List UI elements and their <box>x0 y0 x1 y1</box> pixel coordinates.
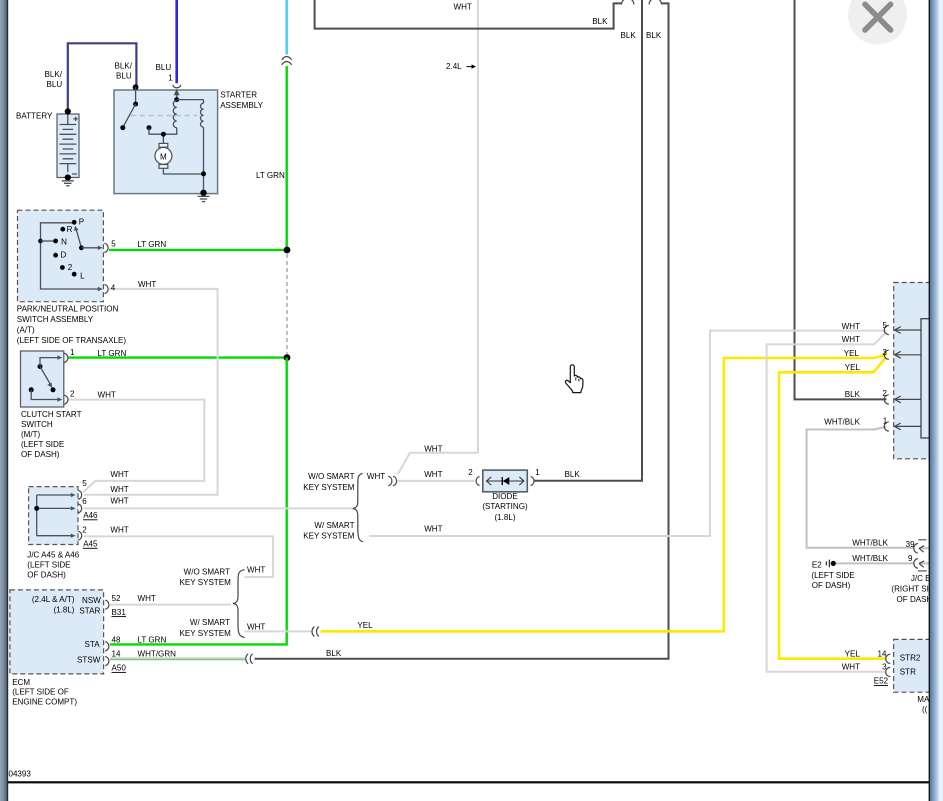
svg-text:2: 2 <box>68 263 73 272</box>
wire BLK STSW to top grommet <box>255 0 669 659</box>
connector (( WHT/GRN to BLK <box>246 654 253 664</box>
svg-text:(LEFT SIDE: (LEFT SIDE <box>811 571 855 580</box>
J/C A45 A46 box <box>29 487 78 545</box>
label J/C E1 name <box>891 574 940 604</box>
svg-text:N: N <box>61 238 67 247</box>
label 2.4L arrow <box>446 62 476 71</box>
svg-text:P: P <box>79 217 84 226</box>
PNP pin arcs <box>104 243 108 293</box>
svg-text:2: 2 <box>468 468 473 477</box>
label ECM name <box>12 678 77 706</box>
label WHT lower brace bottom <box>247 622 265 631</box>
label LT GRN vertical <box>256 171 285 180</box>
svg-text:BLK: BLK <box>326 649 342 658</box>
svg-text:NSW: NSW <box>82 596 101 605</box>
starter motor feed wires <box>149 128 177 144</box>
label DIODE name <box>482 492 528 522</box>
svg-text:WHT: WHT <box>138 594 156 603</box>
label MAIN cut <box>917 695 937 714</box>
wire WHT top vertical to diode branch <box>398 0 478 474</box>
svg-text:3: 3 <box>882 663 887 672</box>
label WHT lower brace top <box>247 565 265 574</box>
svg-text:LT GRN: LT GRN <box>138 635 167 644</box>
wire BLK starter relay to top grommet <box>315 0 634 29</box>
svg-text:W/O SMART: W/O SMART <box>308 472 354 481</box>
label STA <box>85 640 101 649</box>
svg-text:WHT/BLK: WHT/BLK <box>852 539 888 548</box>
svg-text:WHT: WHT <box>110 497 128 506</box>
wire WHT/GRN ECM STSW <box>110 658 245 660</box>
wire WHT/BLK E2 ground to J/C E1 <box>836 562 914 564</box>
ground E2 symbol <box>826 560 836 568</box>
label BLK stsw <box>326 649 342 658</box>
label BLK/BLU starter <box>115 61 133 80</box>
label right pin 1 WHT/BLK <box>824 417 887 427</box>
starter solenoid pin 1 connector <box>173 85 204 103</box>
label WHT/BLK 39 <box>852 539 915 549</box>
right connector inner component <box>895 319 941 438</box>
svg-text:WHT: WHT <box>424 445 442 454</box>
mechanical link dashed <box>131 115 197 117</box>
J/C E1 connector 9 <box>914 559 929 571</box>
STR2 connector box <box>894 639 943 692</box>
label BLK diode <box>565 470 581 479</box>
ground starter <box>198 196 210 201</box>
svg-text:WHT/BLK: WHT/BLK <box>824 417 860 426</box>
wire WHT J/C pin 2 down to W/O brace <box>84 536 273 577</box>
label W smart key lower <box>180 618 232 638</box>
svg-text:W/ SMART: W/ SMART <box>314 521 354 530</box>
svg-text:6: 6 <box>82 497 87 506</box>
svg-text:KEY SYSTEM: KEY SYSTEM <box>303 532 355 541</box>
svg-text:WHT: WHT <box>842 322 860 331</box>
label pin 4 WHT <box>111 280 157 292</box>
label right pin 2 BLK <box>845 389 888 399</box>
svg-text:BLK: BLK <box>646 31 662 40</box>
svg-text:5: 5 <box>82 479 87 488</box>
right connector pin arcs <box>884 325 889 431</box>
svg-text:OF DASH): OF DASH) <box>27 571 66 580</box>
label clutch pin 1 <box>70 348 126 358</box>
label J/C name <box>27 551 79 580</box>
svg-text:SWITCH ASSEMBLY: SWITCH ASSEMBLY <box>17 315 94 324</box>
wire YEL right connector pin 3 to STR2 pin 14 <box>779 357 887 659</box>
starter motor ground path <box>163 127 206 196</box>
wire WHT upper brace W/SMART to right connector pin 5 <box>369 331 887 536</box>
wire LT GRN main vertical upper <box>286 66 288 250</box>
label E2 location <box>811 571 855 590</box>
label STSW <box>77 655 101 664</box>
wire WHT connector )) to diode pin 2 <box>398 480 475 482</box>
svg-text:1: 1 <box>168 73 173 82</box>
label BLK top2 <box>621 31 637 40</box>
solenoid coil 1 <box>173 101 176 128</box>
svg-text:1: 1 <box>535 468 540 477</box>
label clutch switch name <box>21 410 82 459</box>
brace lower smart key <box>233 570 245 638</box>
PNP switch internals <box>38 220 102 291</box>
connector break arcs cyan-green <box>282 57 292 65</box>
label W smart key upper <box>303 521 355 541</box>
svg-text:2.4L: 2.4L <box>446 62 462 71</box>
svg-text:BLU: BLU <box>116 72 132 81</box>
svg-text:WHT: WHT <box>110 526 128 535</box>
label WHT before )) <box>367 472 385 481</box>
wire WHT/BLK right connector pin 1 to J/C E1 <box>807 427 914 548</box>
svg-text:STR2: STR2 <box>900 653 921 662</box>
svg-text:ECM: ECM <box>12 678 30 687</box>
label B31 <box>112 608 127 617</box>
svg-text:(1.8L): (1.8L) <box>494 513 515 522</box>
svg-text:STR: STR <box>900 668 916 677</box>
wire BLK from top to diode pin 1 <box>534 0 642 481</box>
svg-text:D: D <box>61 251 67 260</box>
svg-text:BLK: BLK <box>621 31 637 40</box>
svg-text:YEL: YEL <box>844 349 860 358</box>
label J/C pin 5 <box>82 470 129 494</box>
connector )) before diode <box>388 476 396 486</box>
svg-text:BLK: BLK <box>565 470 581 479</box>
svg-text:DIODE: DIODE <box>492 492 518 501</box>
svg-text:3: 3 <box>882 348 887 357</box>
label STARTER ASSEMBLY <box>220 91 263 111</box>
label BLK top3 <box>646 31 662 40</box>
svg-text:BLK: BLK <box>845 390 861 399</box>
node junction dot 1 <box>284 247 291 254</box>
svg-text:WHT: WHT <box>247 622 265 631</box>
J/C E1 connector 39 <box>914 540 929 553</box>
svg-text:LT GRN: LT GRN <box>256 171 285 180</box>
svg-text:5: 5 <box>883 321 888 330</box>
J/C pin arcs <box>78 490 82 540</box>
label PNP switch name <box>17 305 127 346</box>
wire WHT clutch pin 2 to J/C pin 5 <box>68 400 204 493</box>
svg-text:(LEFT SIDE OF: (LEFT SIDE OF <box>12 688 69 697</box>
svg-text:M: M <box>160 153 167 162</box>
label 52 WHT <box>112 594 156 603</box>
clutch start switch box <box>21 351 64 407</box>
ECM box <box>10 590 104 674</box>
scrollbar left edge bar <box>0 0 8 801</box>
label diode pin 2 <box>468 468 473 477</box>
svg-text:KEY SYSTEM: KEY SYSTEM <box>180 629 232 638</box>
svg-text:STA: STA <box>85 640 101 649</box>
svg-text:(LEFT SIDE: (LEFT SIDE <box>21 440 65 449</box>
bottom border line <box>8 781 929 783</box>
brace upper smart key <box>353 474 363 542</box>
svg-text:B31: B31 <box>112 608 127 617</box>
svg-text:WHT: WHT <box>247 565 265 574</box>
label 14 WHT/GRN <box>112 650 177 659</box>
label E2 <box>812 560 822 569</box>
svg-text:4: 4 <box>111 283 116 292</box>
label WHT above diode jog <box>424 445 442 454</box>
wire LT GRN main vertical lower to ECM STA <box>110 358 287 645</box>
svg-text:2: 2 <box>70 390 75 399</box>
label J/C pin 2 <box>82 526 129 535</box>
label diode pin 1 <box>535 468 540 477</box>
wire WHT lower brace W/SMART to connector <box>245 630 312 632</box>
label W/O smart key upper <box>303 472 355 492</box>
battery <box>57 108 79 180</box>
svg-text:1: 1 <box>883 417 888 426</box>
svg-text:39: 39 <box>906 540 915 549</box>
svg-text:PARK/NEUTRAL POSITION: PARK/NEUTRAL POSITION <box>17 305 119 314</box>
label WHT top <box>454 3 472 12</box>
label WHT second <box>842 335 860 344</box>
svg-text:WHT: WHT <box>842 663 860 672</box>
wire YEL connector to right connector pin 3 <box>321 355 887 632</box>
svg-text:OF DASH): OF DASH) <box>812 581 851 590</box>
svg-text:(A/T): (A/T) <box>17 326 35 335</box>
park/neutral position switch box <box>18 210 104 302</box>
starter assembly box <box>114 90 218 194</box>
svg-text:BLU: BLU <box>47 80 63 89</box>
label BLK top1 <box>592 17 608 26</box>
svg-text:LT GRN: LT GRN <box>98 349 127 358</box>
label 48 LT GRN <box>112 635 167 644</box>
wire WHT J/C pin 6 to brace <box>84 507 355 509</box>
svg-text:WHT/BLK: WHT/BLK <box>852 554 888 563</box>
svg-text:A46: A46 <box>83 511 98 520</box>
ground battery <box>62 181 74 186</box>
node junction dot 2 <box>284 354 291 361</box>
diode box <box>483 470 528 492</box>
clutch pin arcs <box>64 353 68 404</box>
label STR2 STR <box>900 653 921 676</box>
ECM pin arcs <box>105 600 109 666</box>
svg-text:(LEFT SIDE: (LEFT SIDE <box>27 561 71 570</box>
svg-text:2: 2 <box>882 389 887 398</box>
svg-text:2: 2 <box>82 526 87 535</box>
solenoid coil 2 <box>201 103 204 127</box>
svg-text:9: 9 <box>908 554 913 563</box>
label 804393 <box>4 770 31 779</box>
svg-text:52: 52 <box>112 594 121 603</box>
svg-text:(2.4L & A/T): (2.4L & A/T) <box>32 595 75 604</box>
svg-text:L: L <box>80 272 85 281</box>
svg-text:WHT: WHT <box>424 470 442 479</box>
svg-text:WHT: WHT <box>110 485 128 494</box>
label E52 <box>874 677 889 686</box>
label J/C pin 6 <box>82 497 129 506</box>
label BATTERY <box>16 112 53 121</box>
svg-text:E2: E2 <box>812 560 822 569</box>
label YEL <box>357 621 373 630</box>
svg-text:14: 14 <box>878 649 887 658</box>
svg-text:BATTERY: BATTERY <box>16 112 53 121</box>
right connector box <box>894 283 943 459</box>
svg-text:WHT: WHT <box>842 335 860 344</box>
svg-text:A45: A45 <box>83 540 98 549</box>
svg-text:YEL: YEL <box>845 363 861 372</box>
svg-text:WHT: WHT <box>424 525 442 534</box>
label WHT before diode <box>424 470 442 479</box>
label WHT w-smart <box>424 525 442 534</box>
svg-text:ENGINE COMPT): ENGINE COMPT) <box>12 697 77 706</box>
svg-text:KEY SYSTEM: KEY SYSTEM <box>180 578 232 587</box>
cursor hand pointer <box>565 365 583 393</box>
svg-text:WHT: WHT <box>98 391 116 400</box>
svg-text:W/O SMART: W/O SMART <box>184 567 230 576</box>
label YEL 14 <box>845 649 887 658</box>
motor M <box>155 143 172 168</box>
svg-text:SWITCH: SWITCH <box>21 420 53 429</box>
svg-text:WHT: WHT <box>138 280 156 289</box>
svg-text:A50: A50 <box>112 664 127 673</box>
svg-text:YEL: YEL <box>845 649 861 658</box>
starter relay switch <box>120 84 151 130</box>
svg-text:5: 5 <box>111 240 116 249</box>
label pin 5 LT GRN <box>111 240 166 249</box>
wire BLU starter solenoid feed <box>175 0 178 83</box>
label right pin 5 WHT <box>842 321 888 331</box>
label BLK/BLU battery <box>45 70 63 89</box>
svg-text:WHT/GRN: WHT/GRN <box>138 650 177 659</box>
svg-text:BLK: BLK <box>592 17 608 26</box>
wire WHT ECM NSW to lower brace <box>110 604 231 606</box>
svg-text:(STARTING): (STARTING) <box>482 502 528 511</box>
svg-text:STARTER: STARTER <box>220 91 257 100</box>
svg-text:YEL: YEL <box>357 621 373 630</box>
svg-text:W/ SMART: W/ SMART <box>190 618 230 627</box>
wire WHT right connector pin 5 to STR2 pin 3 <box>767 332 887 672</box>
wire BLK/BLU battery to starter <box>68 43 137 111</box>
label BLU pin 1 <box>156 63 174 82</box>
svg-text:1: 1 <box>70 348 75 357</box>
label ECM pin names <box>32 595 101 615</box>
wire LT GRN clutch pin 1 to junction <box>68 356 288 358</box>
svg-text:BLK/: BLK/ <box>115 61 133 70</box>
svg-text:STAR: STAR <box>79 606 100 615</box>
svg-text:STSW: STSW <box>77 655 101 664</box>
svg-text:R: R <box>67 225 73 234</box>
diode pin arcs <box>476 476 534 485</box>
svg-text:48: 48 <box>112 635 121 644</box>
STR2 pin arcs <box>886 654 891 676</box>
svg-text:LT GRN: LT GRN <box>137 240 166 249</box>
svg-text:(M/T): (M/T) <box>21 430 41 439</box>
svg-text:(LEFT SIDE OF TRANSAXLE): (LEFT SIDE OF TRANSAXLE) <box>17 336 127 345</box>
scrollbar right <box>929 0 943 801</box>
svg-text:CLUTCH START: CLUTCH START <box>21 410 82 419</box>
svg-text:E52: E52 <box>874 677 889 686</box>
label YEL second <box>845 363 861 372</box>
connector (( WHT to YEL <box>312 627 319 637</box>
svg-text:ASSEMBLY: ASSEMBLY <box>220 101 263 110</box>
wire WHT PNP pin 4 to J/C pin 5 <box>84 289 218 495</box>
wire LT GRN PNP pin 5 to junction <box>109 249 288 251</box>
label WHT 3 <box>842 663 887 672</box>
label A46 <box>83 511 98 520</box>
svg-text:14: 14 <box>112 650 121 659</box>
label clutch pin 2 <box>70 390 116 400</box>
svg-text:WHT: WHT <box>110 470 128 479</box>
svg-text:WHT: WHT <box>367 472 385 481</box>
label A45 <box>83 540 98 549</box>
label right pin 3 YEL <box>844 348 888 358</box>
svg-text:WHT: WHT <box>454 3 472 12</box>
svg-text:(1.8L): (1.8L) <box>53 605 74 614</box>
svg-text:((: (( <box>922 705 928 714</box>
svg-text:OF DASH): OF DASH) <box>21 450 60 459</box>
wire cyan top segment <box>285 0 288 55</box>
svg-text:BLK/: BLK/ <box>45 70 63 79</box>
wire BLK long vertical to right connector pin 2 <box>795 0 887 399</box>
label W/O smart key lower <box>180 567 232 587</box>
close button <box>848 0 907 45</box>
label A50 <box>112 664 127 673</box>
label WHT/BLK 9 <box>852 554 913 563</box>
label PNP positions P R N D 2 L <box>61 217 86 280</box>
J/C internals <box>34 493 75 538</box>
clutch switch internals <box>29 355 63 401</box>
svg-text:BLU: BLU <box>156 63 172 72</box>
svg-text:KEY SYSTEM: KEY SYSTEM <box>303 483 355 492</box>
wire dashed link between junctions <box>286 254 288 354</box>
svg-text:J/C A45 & A46: J/C A45 & A46 <box>27 551 79 560</box>
